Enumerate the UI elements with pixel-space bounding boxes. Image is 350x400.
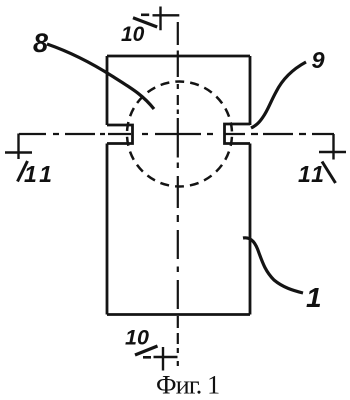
svg-text:8: 8 bbox=[33, 28, 48, 58]
svg-text:11: 11 bbox=[24, 161, 56, 187]
vertical centerline bbox=[177, 22, 179, 366]
section marker 11 right bbox=[319, 134, 346, 160]
svg-text:11: 11 bbox=[298, 161, 326, 187]
section marker 10 top: cross bbox=[153, 7, 180, 31]
leader line for 8 bbox=[47, 44, 154, 109]
section marker 10 top: diagonal tick bbox=[133, 18, 157, 27]
section marker 11 left bbox=[5, 134, 32, 160]
plate body outline (part 1) bbox=[107, 56, 250, 315]
right slot notch bbox=[225, 124, 251, 144]
section marker 10 bottom: diagonal tick bbox=[135, 346, 158, 355]
section marker 11 right: diagonal tick bbox=[322, 162, 336, 184]
section marker 10 bottom: short dash bbox=[143, 356, 151, 359]
section marker 11 left: diagonal tick bbox=[18, 161, 28, 182]
left slot notch bbox=[107, 125, 133, 144]
svg-text:10: 10 bbox=[121, 23, 145, 46]
leader line for 9 bbox=[251, 62, 306, 128]
leader line for 1 bbox=[243, 238, 303, 293]
svg-text:Фиг. 1: Фиг. 1 bbox=[156, 371, 219, 400]
svg-text:9: 9 bbox=[312, 47, 325, 73]
section marker 10 bottom: cross bbox=[154, 347, 178, 371]
svg-text:1: 1 bbox=[306, 282, 322, 313]
section marker 10 top: short dash bbox=[141, 14, 149, 17]
hidden hole circle (dashed) bbox=[127, 82, 232, 187]
svg-text:10: 10 bbox=[125, 326, 149, 350]
horizontal centerline bbox=[19, 133, 334, 135]
